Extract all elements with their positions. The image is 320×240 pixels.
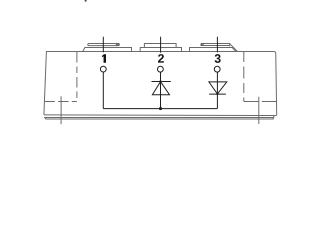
hidden edge dashed, right horizontal xyxy=(244,101,277,103)
hidden edge dashed, left vertical xyxy=(76,52,78,102)
terminal 2 raised block xyxy=(144,44,176,48)
terminal 3 lug hole xyxy=(201,43,203,45)
terminal 3 lug (flat tab) xyxy=(201,44,230,47)
diode D2 triangle xyxy=(209,82,227,94)
baseplate bottom edge xyxy=(45,118,273,119)
stray mark at top edge (cropped text artifact) xyxy=(85,0,87,2)
wire from terminal 2 down xyxy=(160,72,162,108)
pin label 2 xyxy=(158,54,164,63)
wire from terminal 1 down xyxy=(102,72,104,109)
pin label 1 xyxy=(102,54,106,62)
junction node on rail xyxy=(159,107,162,110)
pin label 3 xyxy=(215,54,221,63)
diode D2 cathode bar xyxy=(209,93,226,95)
hidden edge dashed, right vertical xyxy=(243,52,245,102)
baseplate top front edge xyxy=(44,115,274,117)
terminal 1 circle xyxy=(100,66,106,72)
terminal 1 lug (flat tab) xyxy=(88,44,120,46)
terminal 2 centerline xyxy=(160,37,162,53)
terminal 1 centerline xyxy=(102,37,104,53)
package outline: body bottom edge xyxy=(44,114,277,117)
pedestal of terminal 2 xyxy=(140,48,181,52)
wire from terminal 3 down xyxy=(216,72,218,108)
hidden edge dashed, left horizontal xyxy=(44,101,77,103)
diode D1 apex junction xyxy=(159,80,161,82)
terminal 3 lug left end xyxy=(201,44,204,46)
wire bottom rail xyxy=(103,108,217,110)
terminal 2 circle xyxy=(158,66,164,72)
diode D1 triangle xyxy=(152,82,169,95)
package outline: right edge with rounded top corner xyxy=(274,52,277,116)
mounting hole centerline left xyxy=(60,96,62,124)
terminal 3 centerline xyxy=(216,37,218,53)
diode D2 apex junction xyxy=(216,93,218,95)
pedestal of terminal 1 xyxy=(83,48,132,52)
terminal 3 lug oblique edge xyxy=(230,44,238,52)
diode D1 cathode bar xyxy=(152,81,171,83)
package outline: left edge xyxy=(44,52,47,115)
terminal 3 circle xyxy=(214,66,220,72)
mounting hole centerline right xyxy=(258,97,260,124)
terminal 1 lug hole xyxy=(116,44,118,46)
package outline: body top edge xyxy=(46,51,274,53)
pedestal of terminal 3 xyxy=(190,48,236,52)
